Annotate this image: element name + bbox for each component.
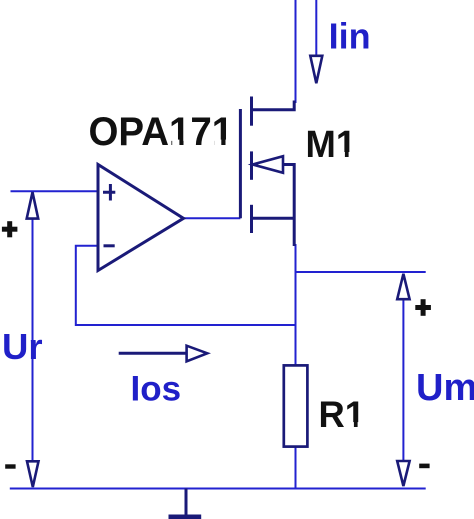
op-amp minus input marker <box>104 244 115 247</box>
arrowhead Ur bottom <box>27 461 39 487</box>
wire noninverting input <box>11 190 99 192</box>
label OPA171 <box>89 110 234 154</box>
op-amp plus input marker <box>103 184 115 201</box>
arrowhead Ur top <box>27 192 39 218</box>
svg-text:OPA171: OPA171 <box>89 110 234 154</box>
arrowhead Um top <box>397 274 409 299</box>
transistor M1 gate line <box>239 109 242 218</box>
wire op-amp output to gate <box>184 217 241 219</box>
wire feedback from inverting input to source node <box>76 246 296 325</box>
label M1 <box>306 124 357 166</box>
transistor M1 bulk pin stub <box>282 163 294 246</box>
label minus right (Um polarity) <box>419 464 429 469</box>
wire output node horizontal <box>296 271 426 273</box>
transistor M1 source pin stub <box>252 217 295 220</box>
transistor M1 source channel segment <box>250 205 253 233</box>
svg-text:R1: R1 <box>319 394 366 435</box>
wire Iin arrow shaft <box>315 0 317 56</box>
resistor R1 body <box>284 365 308 446</box>
label minus left (Ur polarity) <box>5 464 15 468</box>
arrowhead Iin <box>310 56 322 83</box>
arrowhead Um bottom <box>397 461 409 486</box>
node Um measurement arrow shaft <box>402 274 404 485</box>
arrow Ios shaft <box>119 352 187 355</box>
transistor M1 bulk arrow <box>253 156 283 173</box>
svg-text:Ios: Ios <box>131 370 182 409</box>
arrowhead Ios <box>187 346 208 362</box>
svg-text:Ur: Ur <box>2 326 43 367</box>
ground stem <box>185 489 188 516</box>
label R1 <box>319 394 366 435</box>
wire R1 bottom to ground rail <box>295 447 297 489</box>
svg-text:Iin: Iin <box>329 15 371 56</box>
op-amp U1 triangle <box>98 165 184 271</box>
wire Iin vertical into drain <box>295 0 297 103</box>
wire source node down to R1 <box>295 244 297 366</box>
node Ur measurement arrow shaft <box>32 193 34 486</box>
label plus right (Um polarity) <box>415 299 431 316</box>
transistor M1 drain pin stub <box>252 101 295 110</box>
ground bar <box>169 515 202 519</box>
wire ground rail <box>10 488 426 490</box>
label plus left (Ur polarity) <box>2 221 18 237</box>
transistor M1 bulk channel segment <box>250 151 253 179</box>
transistor M1 drain channel segment <box>250 97 253 126</box>
svg-text:Um: Um <box>416 367 474 409</box>
svg-text:M1: M1 <box>306 124 357 166</box>
